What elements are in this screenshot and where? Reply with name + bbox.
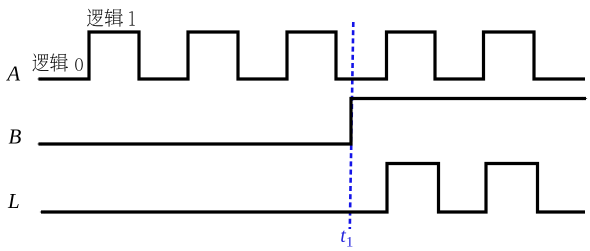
svg-text:1: 1 [346,235,354,251]
svg-text:B: B [9,125,22,149]
svg-text:L: L [7,189,20,213]
svg-text:A: A [5,62,20,86]
